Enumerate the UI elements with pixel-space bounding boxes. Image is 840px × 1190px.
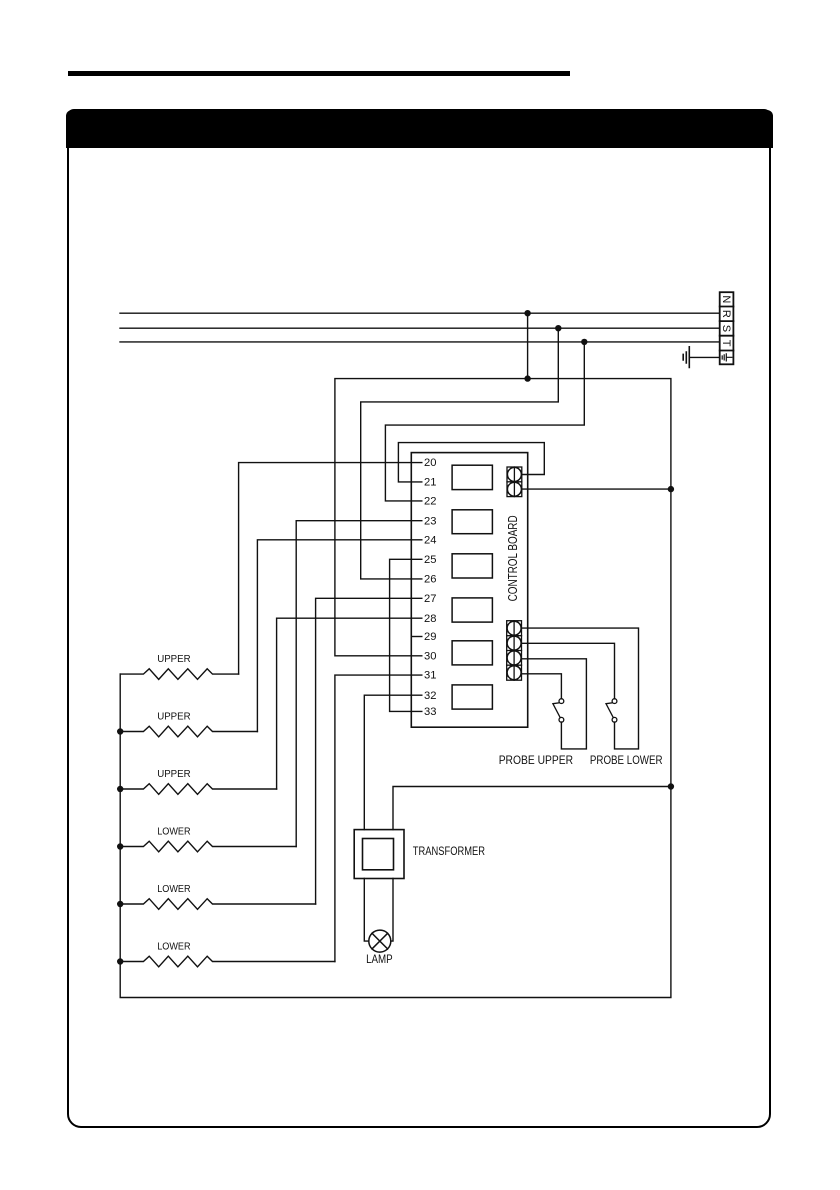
label R1 UPPER — [157, 654, 190, 665]
wire: pin 28 to heater R3 — [277, 618, 422, 789]
terminal TB1 earth cell glyph — [722, 354, 732, 361]
svg-text:UPPER: UPPER — [157, 654, 190, 665]
svg-text:S: S — [720, 325, 732, 332]
probe upper switch S1 — [553, 699, 564, 723]
probe lower switch S2 — [606, 699, 617, 723]
svg-text:21: 21 — [424, 477, 436, 489]
junction: S line to drop — [555, 325, 561, 331]
connector J2 corner hatch — [507, 621, 521, 679]
junction: T line to drop — [581, 339, 587, 345]
wire: pin 20 to heater R1 — [239, 463, 422, 674]
transformer T1 — [354, 830, 404, 879]
relay K2 — [452, 510, 492, 534]
label TRANSFORMER — [413, 844, 485, 858]
svg-text:LOWER: LOWER — [157, 942, 190, 953]
heater R4 LOWER — [120, 841, 296, 852]
wire: R-line drop to neutral bus top — [527, 313, 529, 378]
svg-text:N: N — [720, 295, 732, 303]
svg-text:22: 22 — [424, 496, 436, 508]
wire: mains line T — [120, 341, 720, 343]
lamp L1 — [369, 930, 391, 952]
wire: pin 23 to heater R4 — [296, 521, 422, 847]
svg-text:24: 24 — [424, 534, 436, 546]
terminal block TB1 (N R S T E) — [720, 292, 734, 364]
wire: S-line jog to pin 26 — [361, 328, 559, 579]
svg-text:LOWER: LOWER — [157, 827, 190, 838]
junction R5 on bus — [117, 901, 123, 907]
svg-text:LAMP: LAMP — [366, 952, 393, 966]
svg-text:33: 33 — [424, 706, 436, 718]
svg-text:TRANSFORMER: TRANSFORMER — [413, 844, 485, 858]
heater R2 UPPER — [120, 726, 257, 737]
svg-text:R: R — [720, 310, 732, 318]
wire: mains line R — [120, 312, 720, 314]
wire: pin 24 to heater R2 — [257, 540, 421, 732]
junction: R line to drop — [524, 310, 530, 316]
connector J1 corner hatch — [508, 468, 522, 497]
control board U1 outline — [411, 453, 527, 728]
wire: pin 27 to heater R5 — [316, 598, 422, 904]
label R6 LOWER — [157, 942, 190, 953]
svg-text:25: 25 — [424, 554, 436, 566]
heater R3 UPPER — [120, 784, 276, 795]
svg-text:UPPER: UPPER — [157, 769, 190, 780]
svg-text:PROBE UPPER: PROBE UPPER — [499, 753, 574, 767]
heater R1 UPPER — [120, 669, 238, 680]
label PROBE LOWER — [590, 753, 663, 767]
svg-text:27: 27 — [424, 593, 436, 605]
svg-text:28: 28 — [424, 613, 436, 625]
wire: transformer to lamp right — [391, 879, 393, 942]
terminal TB1 labels N R S T — [720, 295, 732, 346]
connector J2 (4 way) — [507, 621, 522, 681]
header bar — [66, 110, 773, 148]
wire: pin 32 to transformer — [364, 695, 422, 829]
relay K4 — [452, 598, 492, 622]
wire: earth stub from TB1 — [689, 356, 719, 358]
wire: pin 21 loop to connector J1-1 — [398, 443, 544, 482]
svg-text:UPPER: UPPER — [157, 712, 190, 723]
wire: J2-2 to probe lower switch top — [522, 643, 615, 698]
svg-text:LOWER: LOWER — [157, 884, 190, 895]
relay K1 — [452, 465, 492, 489]
wire: mains line S — [120, 327, 720, 329]
label PROBE UPPER — [499, 753, 574, 767]
relay K5 — [452, 641, 492, 665]
junction R4 on bus — [117, 843, 123, 849]
junction R2 on bus — [117, 728, 123, 734]
label R4 LOWER — [157, 827, 190, 838]
wire: T-line jog to pin 22 — [385, 342, 584, 501]
relay K3 — [452, 554, 492, 578]
heater R6 LOWER — [120, 956, 335, 967]
wire: J2-1 to probe lower return riser — [522, 628, 639, 749]
svg-text:31: 31 — [424, 670, 436, 682]
label R2 UPPER — [157, 712, 190, 723]
svg-text:PROBE LOWER: PROBE LOWER — [590, 753, 663, 767]
junction: drop on bus top — [524, 375, 530, 381]
connector J1 (2 way) — [507, 467, 522, 497]
pin 29 stub — [411, 636, 422, 638]
junction: bus right / connector J1-2 wire — [668, 486, 674, 492]
svg-text:29: 29 — [424, 631, 436, 643]
svg-text:CONTROL BOARD: CONTROL BOARD — [505, 515, 520, 601]
svg-text:26: 26 — [424, 574, 436, 586]
wire: connector J1-2 to bus right — [522, 488, 671, 490]
pin numbers 20-33 — [424, 457, 436, 718]
page frame box — [67, 109, 772, 1127]
wire: bus loop (pin30 - top edge - right edge - bottom edge - left heater bus) — [120, 379, 671, 998]
wire: transformer to bus right — [393, 787, 671, 830]
svg-text:32: 32 — [424, 690, 436, 702]
wire: J2-4 to probe upper switch top — [522, 674, 562, 699]
wire: pin 31 to heater R6 — [335, 675, 422, 961]
label R5 LOWER — [157, 884, 190, 895]
junction: bus right / transformer wire — [668, 783, 674, 789]
junction R3 on bus — [117, 786, 123, 792]
wire: J2-3 to probe upper return riser — [522, 659, 587, 749]
wire: pin 25 to pin 33 jumper — [390, 559, 422, 711]
heater R5 LOWER — [120, 899, 315, 910]
wire: transformer to lamp left — [364, 879, 369, 942]
top rule — [68, 71, 570, 76]
svg-text:T: T — [720, 340, 732, 347]
relay K6 — [452, 685, 492, 709]
control board label — [505, 515, 520, 601]
ground symbol — [683, 347, 689, 368]
svg-text:23: 23 — [424, 515, 436, 527]
svg-text:30: 30 — [424, 650, 436, 662]
label R3 UPPER — [157, 769, 190, 780]
svg-text:20: 20 — [424, 457, 436, 469]
label LAMP — [366, 952, 393, 966]
junction R6 on bus — [117, 958, 123, 964]
